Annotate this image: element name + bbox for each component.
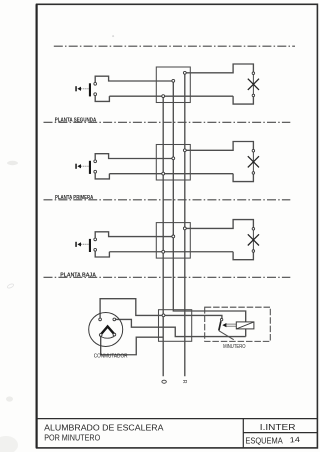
timer contact blade [219,321,221,330]
wire: junction box ground floor to lamp top [186,220,253,229]
node O (neutral) [162,380,166,383]
node: push button terminal first floor [172,157,175,160]
push button first floor top terminal [94,160,97,163]
selector rotor chevron [101,327,114,335]
svg-text:PLANTA SEGUNDA: PLANTA SEGUNDA [55,117,97,123]
selector switch body (CONMUTADOR) [89,313,123,347]
floor line planta primera [44,199,291,201]
wire: lamp second floor bottom jog [233,96,253,104]
floor line planta segunda [44,121,291,123]
node: push button terminal ground floor [172,235,175,238]
svg-text:ESQUEMA: ESQUEMA [245,436,283,445]
node: lamp feed terminal ground floor [183,227,186,230]
selector terminal top-right [113,318,116,321]
wire: left bus (lamp return / neutral O) [162,96,164,376]
svg-text:R: R [181,380,187,384]
title block middle line [243,432,317,434]
wire: push button second floor top to junction box [95,76,172,82]
wire: selector bottom to neutral bus [101,336,164,354]
title block top line [37,418,318,420]
wire: junction box first floor to lamp top [186,142,253,151]
wire: lamp second floor internal vertical [252,74,254,94]
lamp first floor bottom terminal [252,172,255,175]
svg-text:PLANTA BAJA: PLANTA BAJA [60,272,96,278]
svg-text:CONMUTADOR: CONMUTADOR [94,354,128,360]
push button first floor cap [75,164,89,169]
node: lamp feed terminal second floor [183,71,186,74]
wire: right bus (lamps feed / phase R) [184,73,186,377]
node: lamp return terminal first floor [162,172,165,175]
wire: push button first floor bottom jog [95,173,109,179]
svg-text:14: 14 [289,435,300,445]
node: lamp feed terminal first floor [183,149,186,152]
wire: push button ground floor bottom jog [95,251,109,257]
lamp ground floor cross [248,234,259,245]
node: push button terminal second floor [172,79,175,82]
push button first floor contact bar [89,161,91,174]
svg-text:I.INTER: I.INTER [260,423,296,432]
wire: push button first floor top to junction box [95,154,172,160]
svg-text:PLANTA PRIMERA: PLANTA PRIMERA [55,195,94,201]
push button second floor cap [75,86,89,91]
junction box ground floor [156,223,190,259]
selector terminal top-left [99,318,102,321]
bottom junction box [159,310,192,342]
floor line planta baja [44,276,291,278]
timer contact terminal [220,318,222,320]
border frame left edge emphasis [35,4,37,448]
lamp first floor top terminal [252,149,255,152]
svg-text:MINUTERO: MINUTERO [223,344,245,350]
wire: bottom horizontal second floor [109,95,233,97]
wire: middle bus (push buttons to timer coil) [173,81,245,337]
push button ground floor top terminal [94,238,97,241]
svg-text:ALUMBRADO DE ESCALERA: ALUMBRADO DE ESCALERA [44,424,164,433]
node: bottom junction box terminal [162,314,165,317]
top boundary dash-dot line [54,45,295,47]
lamp second floor top terminal [252,72,255,75]
selector terminal bottom-left [99,334,102,337]
wire: lamp first floor internal vertical [252,152,254,172]
node: lamp return terminal ground floor [162,250,165,253]
junction box second floor [156,67,190,103]
push button second floor bottom terminal [94,93,97,96]
lamp second floor cross [248,79,259,90]
timer actuating arrow [222,323,236,327]
lamp first floor cross [248,156,259,167]
push button ground floor bottom terminal [94,248,97,251]
selector terminal bottom-right [113,333,116,336]
lamp ground floor top terminal [252,228,255,231]
lamp ground floor bottom terminal [252,250,255,253]
wire: selector top-right to timer common [116,319,246,336]
push button second floor contact bar [89,83,91,96]
wire: timer contact output diagonal [219,331,234,340]
wire: lamp first floor bottom jog [233,174,253,182]
timer enclosure (MINUTERO, dashed) [205,307,271,341]
wire: lamp ground floor bottom jog [233,252,253,260]
wire: push button ground floor top to junction box [95,232,172,238]
selector rotor arc [101,336,114,338]
junction box first floor [156,145,190,181]
wire: junction box second floor to lamp top [186,64,253,73]
wire: push button second floor bottom jog [95,96,109,102]
lamp second floor bottom terminal [252,94,255,97]
timer coil [236,322,254,329]
push button ground floor contact bar [89,239,91,252]
wire: bottom horizontal first floor [109,173,233,175]
wire: bottom horizontal ground floor [109,251,233,253]
wire: selector top-left to bottom junction box terminal [100,299,222,319]
title block divider [242,419,244,448]
wire: lamp ground floor internal vertical [252,230,254,250]
push button second floor top terminal [94,82,97,85]
push button ground floor cap [75,242,89,247]
push button first floor bottom terminal [94,170,97,173]
svg-text:POR MINUTERO: POR MINUTERO [44,433,100,442]
node: lamp return terminal second floor [162,95,165,98]
